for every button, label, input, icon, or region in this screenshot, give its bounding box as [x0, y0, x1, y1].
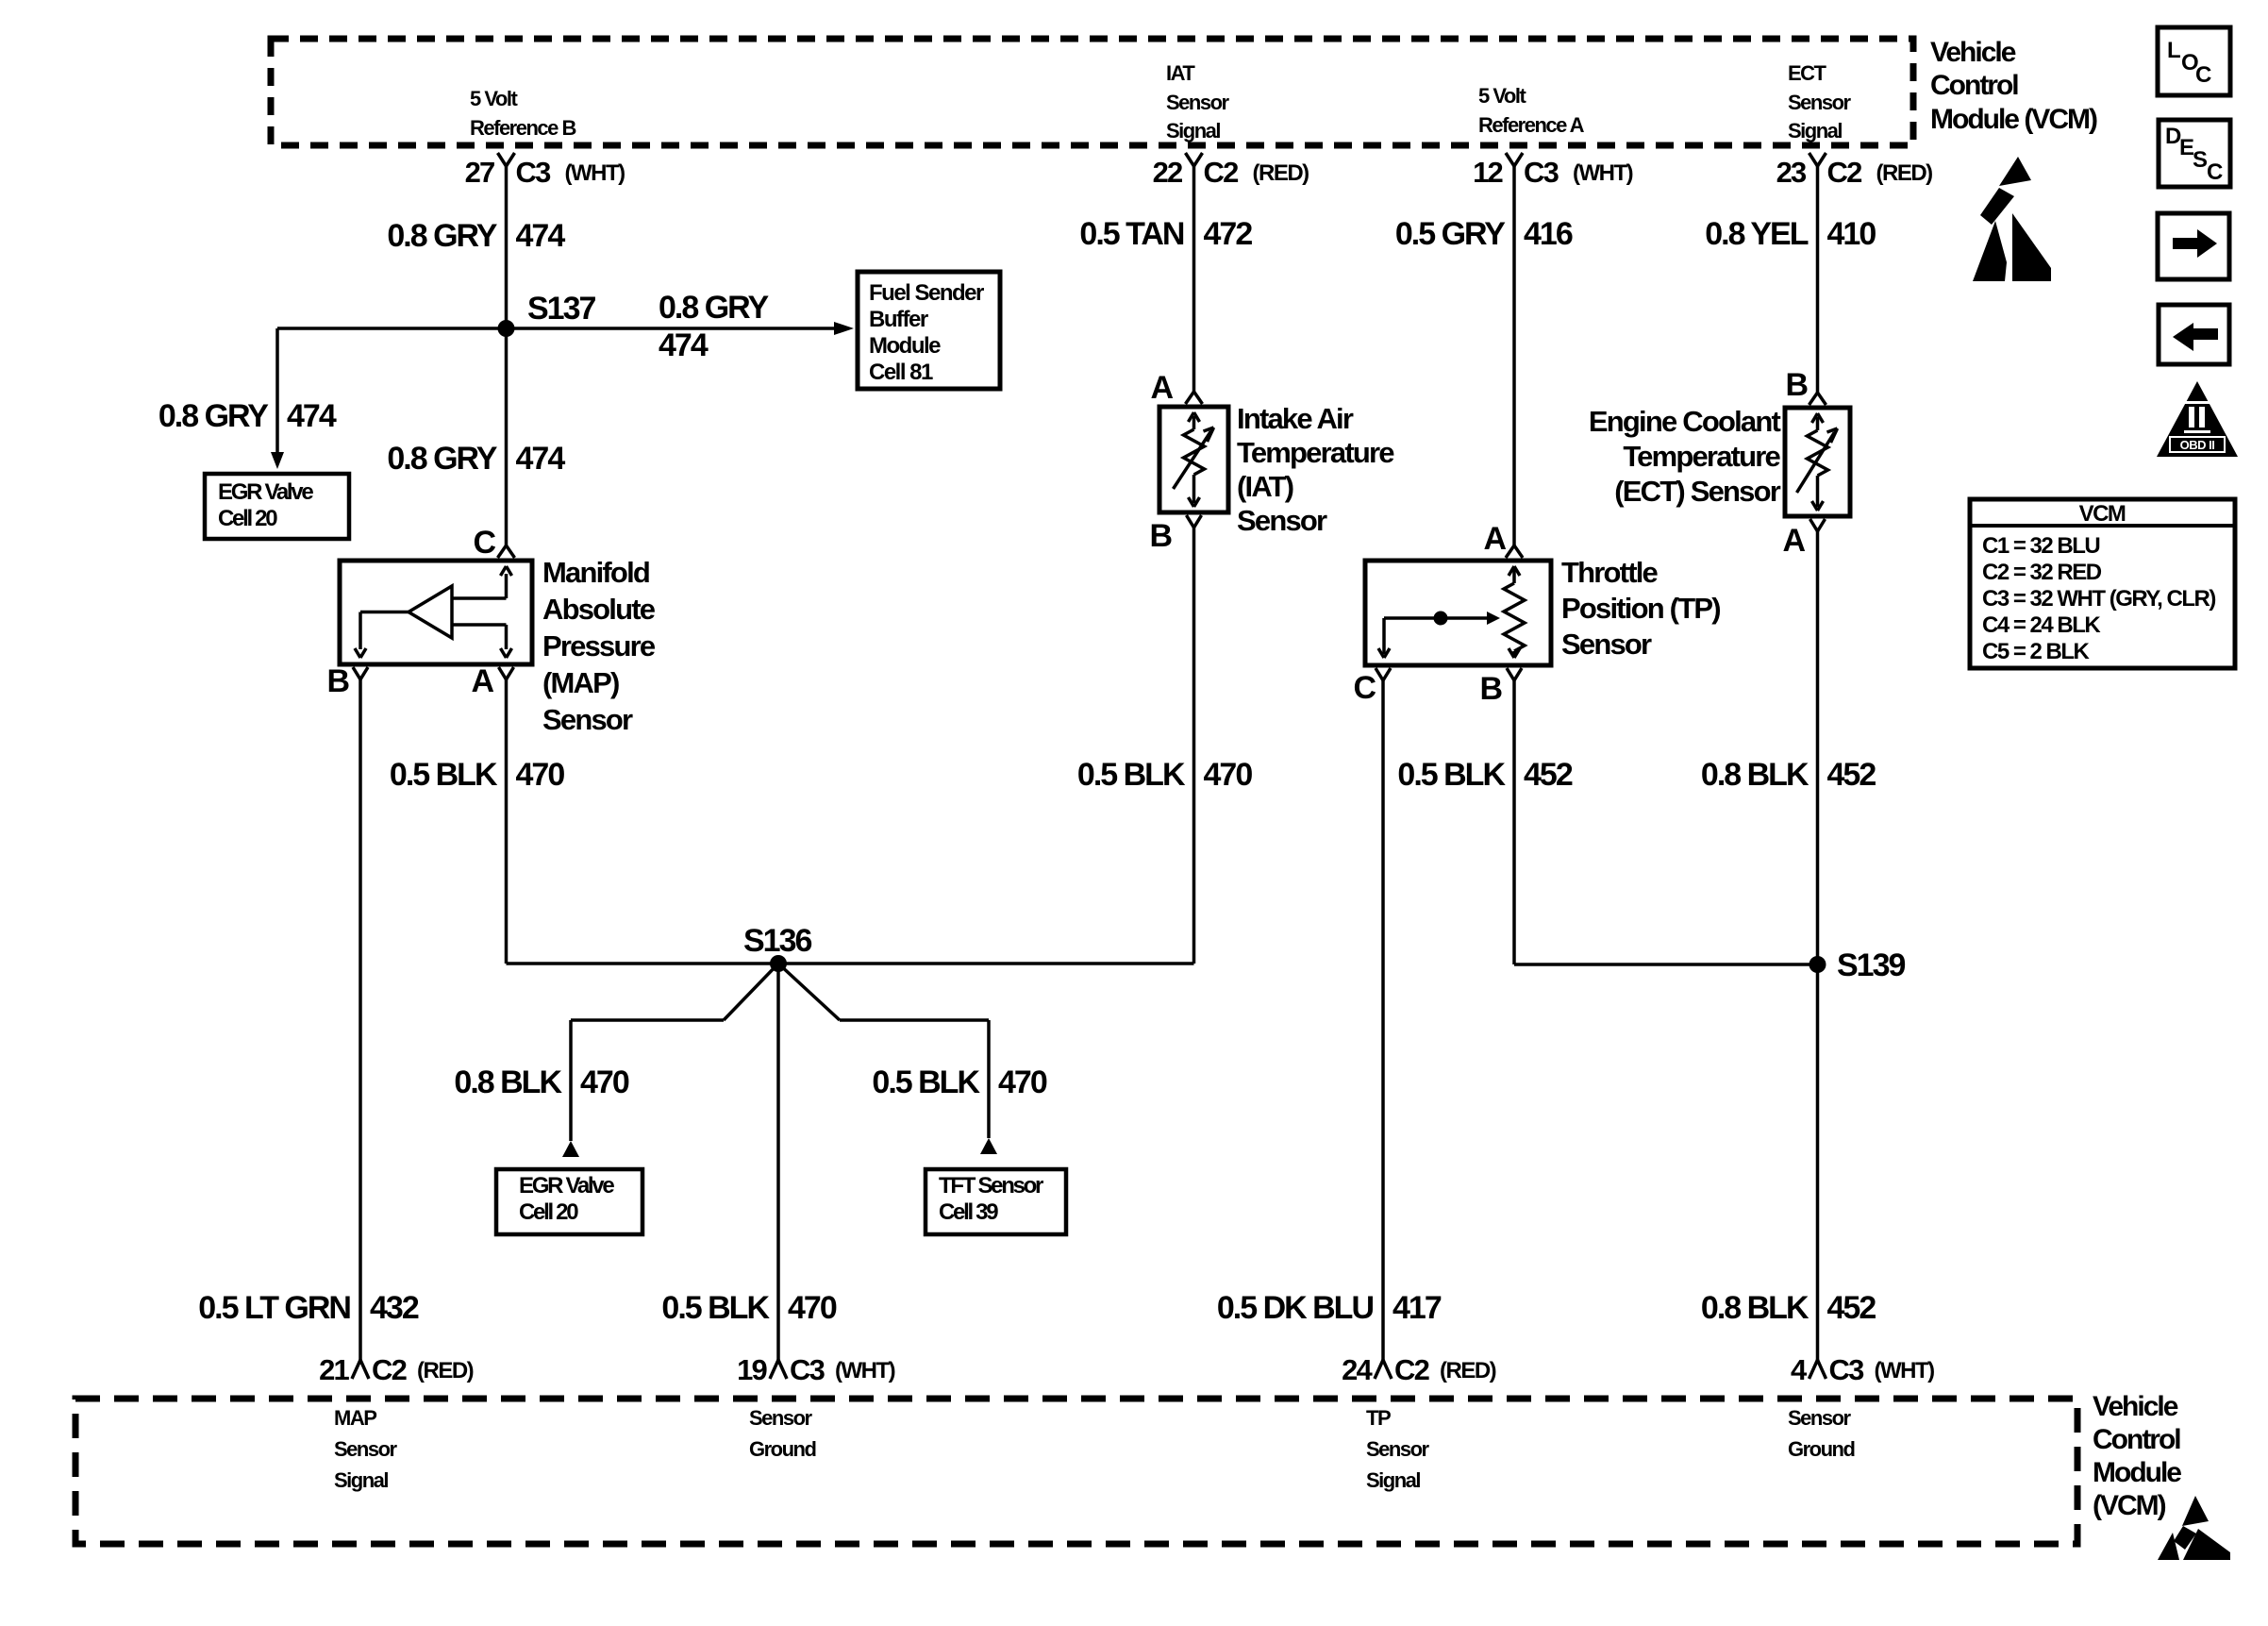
svg-text:B: B [326, 663, 349, 699]
svg-text:C1 = 32 BLU: C1 = 32 BLU [1982, 533, 2099, 559]
svg-text:C3: C3 [790, 1353, 825, 1386]
svg-text:TFT Sensor: TFT Sensor [939, 1173, 1043, 1199]
svg-text:474: 474 [516, 218, 566, 254]
svg-text:A: A [471, 663, 493, 699]
svg-text:24: 24 [1342, 1353, 1373, 1386]
svg-text:(RED): (RED) [417, 1358, 474, 1383]
svg-text:(ECT) Sensor: (ECT) Sensor [1614, 475, 1780, 508]
svg-text:0.5 BLK: 0.5 BLK [1077, 757, 1186, 793]
svg-text:Sensor: Sensor [1366, 1437, 1430, 1461]
svg-text:Sensor: Sensor [1166, 91, 1230, 114]
svg-text:C: C [1353, 670, 1376, 706]
svg-text:(MAP): (MAP) [542, 666, 619, 699]
svg-text:(IAT): (IAT) [1237, 470, 1293, 503]
svg-text:Cell 81: Cell 81 [869, 360, 933, 385]
svg-text:Position (TP): Position (TP) [1561, 592, 1720, 625]
svg-text:Sensor: Sensor [1788, 1406, 1852, 1430]
svg-text:(RED): (RED) [1253, 160, 1309, 186]
svg-text:Sensor: Sensor [1561, 628, 1652, 661]
svg-text:ECT: ECT [1788, 61, 1827, 85]
svg-text:Signal: Signal [1788, 119, 1842, 142]
svg-text:A: A [1782, 523, 1805, 559]
svg-text:0.5 DK BLU: 0.5 DK BLU [1217, 1290, 1374, 1326]
svg-text:MAP: MAP [334, 1406, 376, 1430]
svg-text:Cell 20: Cell 20 [218, 506, 277, 531]
svg-text:474: 474 [516, 441, 566, 477]
svg-text:Module (VCM): Module (VCM) [1930, 104, 2097, 135]
svg-text:470: 470 [1204, 757, 1253, 793]
svg-text:474: 474 [287, 398, 337, 434]
svg-text:(RED): (RED) [1876, 160, 1933, 186]
svg-text:5 Volt: 5 Volt [470, 87, 518, 110]
svg-text:0.5 BLK: 0.5 BLK [390, 757, 498, 793]
svg-text:0.8 YEL: 0.8 YEL [1705, 216, 1808, 252]
svg-text:27: 27 [465, 156, 494, 189]
svg-text:452: 452 [1827, 1290, 1876, 1326]
svg-text:0.5 BLK: 0.5 BLK [661, 1290, 770, 1326]
svg-text:Vehicle: Vehicle [2093, 1391, 2178, 1422]
svg-text:410: 410 [1827, 216, 1876, 252]
svg-text:C: C [473, 525, 495, 561]
svg-text:470: 470 [788, 1290, 837, 1326]
svg-text:Sensor: Sensor [334, 1437, 398, 1461]
svg-text:Cell 39: Cell 39 [939, 1199, 998, 1225]
svg-text:Sensor: Sensor [1237, 504, 1327, 537]
svg-text:Fuel Sender: Fuel Sender [869, 280, 984, 306]
svg-text:Control: Control [1930, 70, 2018, 101]
svg-text:C: C [2207, 159, 2223, 185]
svg-text:Signal: Signal [1166, 119, 1220, 142]
svg-text:S: S [2193, 147, 2208, 173]
svg-text:Throttle: Throttle [1561, 556, 1659, 589]
svg-text:19: 19 [737, 1353, 767, 1386]
svg-text:0.8 GRY: 0.8 GRY [158, 398, 269, 434]
svg-text:EGR Valve: EGR Valve [519, 1173, 614, 1199]
svg-text:C2: C2 [1394, 1353, 1429, 1386]
svg-text:452: 452 [1827, 757, 1876, 793]
svg-text:0.8 GRY: 0.8 GRY [659, 290, 769, 326]
svg-text:TP: TP [1366, 1406, 1391, 1430]
svg-text:B: B [1149, 518, 1172, 554]
svg-text:0.5 BLK: 0.5 BLK [872, 1064, 980, 1100]
svg-text:C3: C3 [1829, 1353, 1865, 1386]
svg-text:470: 470 [516, 757, 565, 793]
svg-text:0.5 LT GRN: 0.5 LT GRN [198, 1290, 350, 1326]
svg-text:S136: S136 [743, 923, 811, 959]
svg-text:Sensor: Sensor [749, 1406, 813, 1430]
svg-text:C3: C3 [1524, 156, 1559, 189]
svg-text:Temperature: Temperature [1623, 440, 1780, 473]
svg-text:C2: C2 [1827, 156, 1862, 189]
svg-text:470: 470 [998, 1064, 1047, 1100]
svg-text:Pressure: Pressure [542, 629, 656, 662]
svg-text:Buffer: Buffer [869, 307, 928, 332]
svg-text:416: 416 [1524, 216, 1573, 252]
svg-text:0.8 GRY: 0.8 GRY [387, 441, 497, 477]
svg-text:0.5 GRY: 0.5 GRY [1395, 216, 1506, 252]
svg-text:21: 21 [319, 1353, 349, 1386]
svg-text:Module: Module [869, 333, 941, 359]
svg-text:474: 474 [659, 327, 709, 363]
svg-text:472: 472 [1204, 216, 1253, 252]
svg-text:Engine Coolant: Engine Coolant [1589, 405, 1781, 438]
svg-text:5 Volt: 5 Volt [1478, 84, 1526, 108]
svg-text:417: 417 [1392, 1290, 1442, 1326]
svg-text:(WHT): (WHT) [565, 160, 625, 186]
svg-text:C2 = 32 RED: C2 = 32 RED [1982, 560, 2102, 585]
svg-text:(WHT): (WHT) [1875, 1358, 1935, 1383]
svg-text:23: 23 [1776, 156, 1807, 189]
svg-text:4: 4 [1791, 1353, 1808, 1386]
svg-text:(WHT): (WHT) [1573, 160, 1633, 186]
svg-text:C5 = 2 BLK: C5 = 2 BLK [1982, 639, 2091, 664]
svg-text:Intake Air: Intake Air [1237, 402, 1354, 435]
svg-text:Ground: Ground [749, 1437, 815, 1461]
svg-text:Sensor: Sensor [1788, 91, 1852, 114]
svg-text:0.8 GRY: 0.8 GRY [387, 218, 497, 254]
svg-text:Cell 20: Cell 20 [519, 1199, 578, 1225]
svg-text:B: B [1785, 367, 1808, 403]
svg-text:S139: S139 [1837, 947, 1905, 983]
svg-text:VCM: VCM [2079, 501, 2126, 527]
svg-text:0.5 BLK: 0.5 BLK [1397, 757, 1506, 793]
svg-text:IAT: IAT [1166, 61, 1195, 85]
svg-text:C3 = 32 WHT (GRY, CLR): C3 = 32 WHT (GRY, CLR) [1982, 586, 2215, 612]
svg-text:C2: C2 [1204, 156, 1239, 189]
svg-text:(WHT): (WHT) [835, 1358, 895, 1383]
svg-text:Temperature: Temperature [1237, 436, 1394, 469]
svg-text:0.8 BLK: 0.8 BLK [1701, 1290, 1809, 1326]
svg-text:12: 12 [1473, 156, 1502, 189]
svg-text:C4 = 24 BLK: C4 = 24 BLK [1982, 612, 2101, 638]
svg-text:452: 452 [1524, 757, 1573, 793]
svg-text:A: A [1150, 370, 1173, 406]
svg-text:Signal: Signal [1366, 1468, 1420, 1492]
svg-text:B: B [1479, 671, 1502, 707]
svg-text:Sensor: Sensor [542, 703, 633, 736]
svg-text:Signal: Signal [334, 1468, 388, 1492]
svg-text:L: L [2167, 38, 2180, 63]
svg-text:0.5 TAN: 0.5 TAN [1079, 216, 1184, 252]
svg-text:(RED): (RED) [1440, 1358, 1496, 1383]
svg-text:S137: S137 [527, 291, 595, 327]
svg-text:Ground: Ground [1788, 1437, 1854, 1461]
svg-text:(VCM): (VCM) [2093, 1490, 2166, 1521]
svg-text:C2: C2 [372, 1353, 407, 1386]
svg-text:Vehicle: Vehicle [1930, 37, 2016, 68]
svg-text:Control: Control [2093, 1424, 2180, 1455]
svg-text:C3: C3 [516, 156, 552, 189]
svg-text:Absolute: Absolute [542, 593, 656, 626]
svg-text:Reference B: Reference B [470, 116, 576, 140]
svg-text:OBD II: OBD II [2180, 438, 2215, 452]
svg-text:Module: Module [2093, 1457, 2181, 1488]
svg-text:A: A [1483, 521, 1506, 557]
svg-text:0.8 BLK: 0.8 BLK [454, 1064, 562, 1100]
svg-text:C: C [2195, 62, 2211, 88]
svg-text:470: 470 [580, 1064, 629, 1100]
svg-text:Reference A: Reference A [1478, 113, 1585, 137]
svg-text:Manifold: Manifold [542, 556, 649, 589]
svg-text:432: 432 [370, 1290, 419, 1326]
svg-text:22: 22 [1153, 156, 1182, 189]
svg-text:0.8 BLK: 0.8 BLK [1701, 757, 1809, 793]
svg-text:EGR Valve: EGR Valve [218, 479, 313, 505]
